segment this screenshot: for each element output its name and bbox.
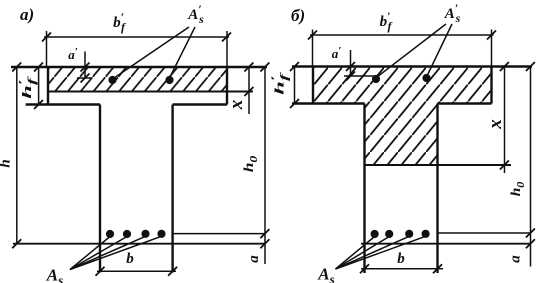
- svg-text:h′f: h′f: [269, 72, 291, 95]
- arrow tick b'f left (b): [308, 31, 317, 40]
- arrow tick b'f left (a): [42, 33, 51, 42]
- arrow tick h top (a): [12, 63, 21, 72]
- arrow tick x bottom (b): [500, 161, 509, 170]
- arrow tick a' top (b): [346, 62, 355, 71]
- arrow tick a bottom (b): [526, 239, 535, 248]
- svg-text:h0: h0: [242, 156, 260, 173]
- label As (b): [317, 265, 334, 283]
- rebar dot As 4 (b): [422, 230, 430, 238]
- leader from A's to left bar (b): [377, 24, 446, 77]
- svg-text:As: As: [317, 265, 334, 283]
- dimension x line (a): [248, 67, 250, 114]
- web right edge (a): [171, 105, 173, 273]
- arrow tick h'f bottom (b): [290, 99, 299, 108]
- arrow tick x top (a): [244, 63, 253, 72]
- dimension h'f line (b): [294, 67, 296, 104]
- dimension a line (a): [264, 234, 266, 264]
- dimension h0 line (a): [264, 67, 266, 234]
- value label b (a): [126, 251, 134, 267]
- svg-text:б): б): [291, 6, 305, 25]
- arrow tick b left (a): [96, 267, 105, 276]
- extension line right of b'f (a): [226, 31, 228, 66]
- reference line at top bar level (a): [77, 77, 91, 79]
- value label h0 rotated (a): [242, 156, 260, 173]
- svg-text:b: b: [126, 251, 134, 267]
- leader As to dot1 (b): [336, 237, 375, 270]
- value label h rotated (a): [0, 159, 14, 167]
- rebar dot As 3 (b): [405, 230, 413, 238]
- value label x rotated (b): [485, 119, 506, 130]
- value label b'f (a): [113, 10, 126, 34]
- neutral axis / hatch bottom line (a): [48, 91, 253, 93]
- rebar dot As 1 (b): [371, 230, 379, 238]
- value label h'f rotated (b): [269, 72, 291, 95]
- leader As to dot3 (b): [336, 236, 410, 269]
- bar level extension line (b): [438, 232, 532, 234]
- dimension a' line (b): [350, 50, 352, 76]
- arrow tick b'f right (a): [222, 33, 231, 42]
- arrow tick h bottom (a): [12, 239, 21, 248]
- arrow tick x bottom (a): [244, 87, 253, 96]
- value label a' (a): [68, 46, 78, 62]
- value label a rotated (a): [246, 255, 262, 263]
- value label x rotated (a): [226, 99, 247, 110]
- rebar dot As 2 (a): [123, 230, 131, 238]
- flange bottom edge right (b): [438, 102, 492, 104]
- svg-text:As: As: [46, 266, 63, 283]
- svg-text:a′: a′: [68, 46, 78, 62]
- rebar dot A's right (b): [422, 74, 430, 82]
- arrow tick h'f top (a): [34, 63, 43, 72]
- arrow tick a' top (a): [81, 63, 90, 72]
- leader As to dot2 (a): [70, 237, 127, 270]
- arrow tick b left (b): [360, 264, 369, 273]
- flange left edge (b): [312, 67, 314, 104]
- svg-text:а): а): [20, 5, 34, 24]
- arrow tick h'f bottom (a): [34, 100, 43, 109]
- arrow tick h0 top (b): [526, 62, 535, 71]
- arrow tick a bottom (a): [260, 239, 269, 248]
- value label a rotated (b): [508, 255, 524, 263]
- rebar dot A's left (a): [108, 76, 116, 84]
- leader from A's to right bar (b): [427, 24, 452, 76]
- flange top edge (a): [11, 66, 267, 68]
- dimension x line (b): [504, 67, 506, 174]
- dimension h0 line (b): [530, 67, 532, 267]
- svg-text:b′f: b′f: [380, 9, 393, 33]
- hatched compression T zone (b): [313, 67, 492, 166]
- web left edge (a): [99, 105, 101, 273]
- extension line left of b'f (b): [312, 30, 314, 67]
- label b): [291, 6, 305, 25]
- value label h0 rotated (b): [509, 181, 527, 196]
- dimension b line (b): [361, 268, 443, 270]
- label A's (a): [187, 2, 204, 26]
- reference line at top bar level (b): [344, 75, 374, 77]
- rebar dot As 3 (a): [141, 230, 149, 238]
- svg-text:b: b: [397, 251, 405, 267]
- svg-text:h: h: [0, 159, 14, 167]
- value label b'f (b): [380, 9, 393, 33]
- flange top edge (b): [292, 65, 532, 67]
- beam bottom edge (a): [13, 243, 265, 245]
- leader As to dot4 (b): [336, 236, 426, 269]
- hatched compression zone (a): [48, 67, 227, 92]
- value label a' (b): [332, 45, 342, 61]
- leader As to dot3 (a): [70, 236, 146, 269]
- dimension b line (a): [97, 270, 176, 272]
- leader As to dot2 (b): [336, 237, 390, 270]
- svg-text:A′s: A′s: [444, 1, 461, 25]
- arrow tick a' bottom (b): [346, 72, 355, 81]
- arrow tick h'f top (b): [290, 62, 299, 71]
- arrow tick b right (b): [433, 264, 442, 273]
- svg-text:x: x: [485, 119, 506, 130]
- arrow tick h0 bottom (b): [526, 229, 535, 238]
- rebar dot A's right (a): [165, 76, 173, 84]
- label a): [20, 5, 34, 24]
- svg-text:h′f: h′f: [16, 76, 38, 99]
- arrow tick h0 bottom (a): [260, 229, 269, 238]
- arrow tick x top (b): [500, 62, 509, 71]
- label As (a): [46, 266, 63, 283]
- dimension line b'f (b): [310, 34, 494, 36]
- flange bottom edge left (b): [292, 102, 365, 104]
- svg-text:a′: a′: [332, 45, 342, 61]
- value label h'f rotated (a): [16, 76, 38, 99]
- leader from A's to left bar (a): [114, 27, 189, 78]
- svg-text:b′f: b′f: [113, 10, 126, 34]
- dimension line b'f (left section): [44, 36, 229, 38]
- dimension h line (a): [16, 67, 18, 244]
- flange right edge (b): [490, 67, 492, 104]
- leader As to dot1 (a): [70, 237, 110, 270]
- leader from A's to right bar (a): [170, 27, 195, 77]
- flange bottom edge left (a): [26, 103, 100, 105]
- arrow tick b right (a): [168, 267, 177, 276]
- label A's (b): [444, 1, 461, 25]
- flange left edge (a): [47, 67, 49, 105]
- web left edge (b): [363, 104, 365, 274]
- rebar dot A's left (b): [372, 75, 380, 83]
- leader As to dot4 (a): [70, 236, 162, 269]
- svg-text:x: x: [226, 99, 247, 110]
- flange bottom edge right (a): [173, 103, 227, 105]
- svg-text:a: a: [246, 255, 262, 263]
- arrow tick h0 top (a): [260, 63, 269, 72]
- rebar dot As 4 (a): [157, 230, 165, 238]
- beam bottom edge (b): [361, 243, 531, 245]
- svg-text:A′s: A′s: [187, 2, 204, 26]
- arrow tick b'f right (b): [487, 31, 496, 40]
- svg-text:h0: h0: [509, 181, 527, 196]
- extension line right of b'f (b): [491, 30, 493, 67]
- dimension h'f line (a): [38, 67, 40, 105]
- svg-text:a: a: [508, 255, 524, 263]
- flange right edge (a): [226, 67, 228, 105]
- dimension a' line (a): [84, 52, 86, 79]
- bar level extension line (a): [173, 233, 265, 235]
- rebar dot As 1 (a): [106, 230, 114, 238]
- rebar dot As 2 (b): [385, 230, 393, 238]
- arrow tick a' bottom (a): [81, 74, 90, 83]
- value label b (b): [397, 251, 405, 267]
- extension line left of b'f (a): [46, 31, 48, 66]
- neutral axis / hatch bottom line (b): [365, 164, 512, 166]
- web right edge (b): [436, 104, 438, 274]
